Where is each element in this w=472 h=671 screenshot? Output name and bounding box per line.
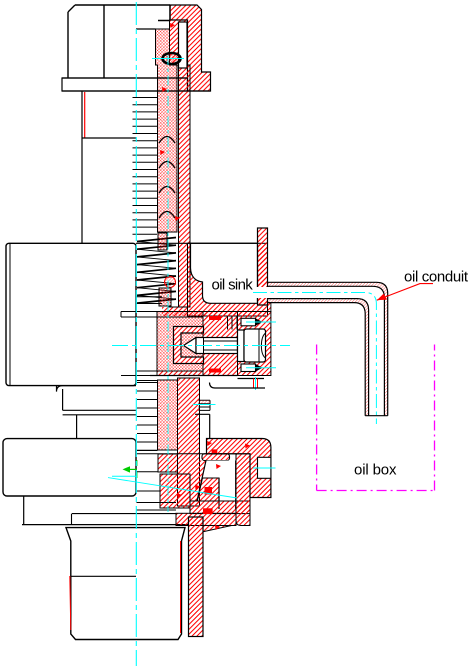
oil sink right wall: [258, 228, 268, 305]
outer ring hatched: [238, 312, 271, 376]
spring wire section: [165, 277, 176, 288]
hex head outline (top bolt, left half view): [68, 5, 170, 78]
oil sink walls hatched base: [188, 243, 268, 316]
block inner edge line: [9, 243, 11, 385]
pin centerline: [152, 58, 184, 60]
step below lower block: [22, 496, 189, 525]
oblique hole axis: [108, 478, 237, 498]
plug mid line: [71, 575, 136, 577]
spring top seat: [158, 233, 167, 250]
bell cavity white: [202, 461, 235, 510]
leader arrowhead: [377, 294, 387, 301]
ledge below block: [57, 386, 137, 415]
flange washer under head: [62, 78, 188, 91]
small datum centerline: [112, 475, 137, 477]
oil sink top rim: [188, 242, 258, 244]
body column below flange: [82, 91, 136, 243]
oil sink cavity: [191, 243, 258, 303]
red plate mark: [203, 508, 213, 514]
side port centerline: [193, 404, 216, 406]
cap section (hatched): [170, 5, 211, 91]
lower cross-hatched column: [158, 380, 178, 450]
castellated retainer: [174, 327, 204, 364]
spring bottom seat: [159, 288, 171, 306]
hatched zone around bolt: [203, 312, 238, 376]
bell slant wall: [195, 461, 206, 502]
svg-text:oil conduit: oil conduit: [404, 269, 469, 286]
bolt cone tip: [184, 338, 197, 354]
column to lower block: [76, 415, 78, 439]
left packing block upper: [158, 454, 178, 472]
flange edge lines over strips: [62, 78, 211, 91]
conduit top wall hatch: [268, 282, 388, 415]
lower left block: [3, 439, 136, 496]
nut: [244, 329, 266, 362]
spring coils: [137, 238, 176, 304]
washer: [238, 330, 245, 362]
left section edge lines: [137, 450, 237, 510]
conduit wall lines: [268, 282, 388, 415]
bracket notch centerline: [253, 467, 276, 469]
cross-hatched gland block: [157, 312, 203, 372]
bore slot lower: [241, 364, 256, 372]
svg-text:oil box: oil box: [354, 462, 397, 479]
lower hatched column: [178, 378, 200, 506]
bolt thread lines: [204, 338, 238, 354]
ring neck strip: [268, 303, 271, 312]
seat red mark: [205, 487, 213, 495]
bolt horizontal centerline: [112, 345, 290, 347]
right hatched bar: [236, 454, 250, 526]
oil conduit leader line: [377, 284, 433, 301]
oil box phantom outline: [317, 345, 435, 491]
plate chamfer wedge: [203, 526, 232, 532]
big left block: [6, 243, 136, 385]
plug red edge lines: [70, 541, 181, 633]
pin ellipse: [163, 53, 181, 64]
red joint marks: [209, 316, 221, 320]
stem hatched strip: [170, 20, 191, 307]
gland block top line: [157, 316, 203, 318]
stud lines above washer: [228, 316, 238, 330]
red flow triangles: [160, 23, 250, 530]
plug right wall hatched: [189, 517, 204, 637]
gland base strip: [157, 371, 203, 376]
slot centerlines: [246, 322, 276, 368]
white slot in cap: [179, 22, 188, 68]
thread arcs inside stem: [159, 137, 175, 219]
drill tip upper: [256, 318, 263, 326]
top bore step line: [136, 28, 156, 30]
thread tick lines: [133, 98, 158, 235]
red bore line below flange: [84, 92, 86, 138]
bolt shaft: [196, 338, 238, 354]
flange band A: [190, 501, 250, 514]
body step lines: [195, 414, 210, 438]
main vertical centerline: [135, 2, 137, 666]
conduit bottom wall hatch: [268, 299, 369, 416]
lower thread ticks: [137, 383, 158, 451]
secondary vertical centerline: [167, 55, 169, 512]
conduit opening gap: [257, 287, 269, 298]
stem cross-hatched strip: [156, 29, 178, 232]
bore slot upper: [241, 318, 256, 326]
conduit centerline: [253, 293, 376, 425]
cavity right wall line: [219, 461, 236, 510]
washer bar under bracket: [202, 454, 230, 461]
conduit bracket: [207, 439, 271, 498]
bottom plate hatched: [176, 513, 236, 525]
nut chamfer arcs: [259, 329, 266, 362]
valve seat wedge: [197, 478, 219, 501]
plate bore edge lines left of center: [121, 297, 162, 381]
svg-text:oil sink: oil sink: [212, 277, 254, 294]
bracket notch: [258, 457, 271, 478]
bore top edge line through spring zone: [136, 242, 188, 244]
bolt hole axis below ring: [254, 379, 258, 389]
body shelf line: [210, 383, 266, 389]
assembly bottom edges: [150, 376, 264, 379]
drain plug outline: [66, 528, 185, 640]
drill tip lower: [256, 364, 263, 372]
lower stem base strip: [162, 307, 188, 316]
plug washer lines (left view): [72, 514, 177, 525]
green datum arrow: [123, 460, 138, 478]
left packing block lower: [160, 474, 190, 508]
side port: [199, 400, 211, 410]
red washer mark: [212, 449, 218, 453]
